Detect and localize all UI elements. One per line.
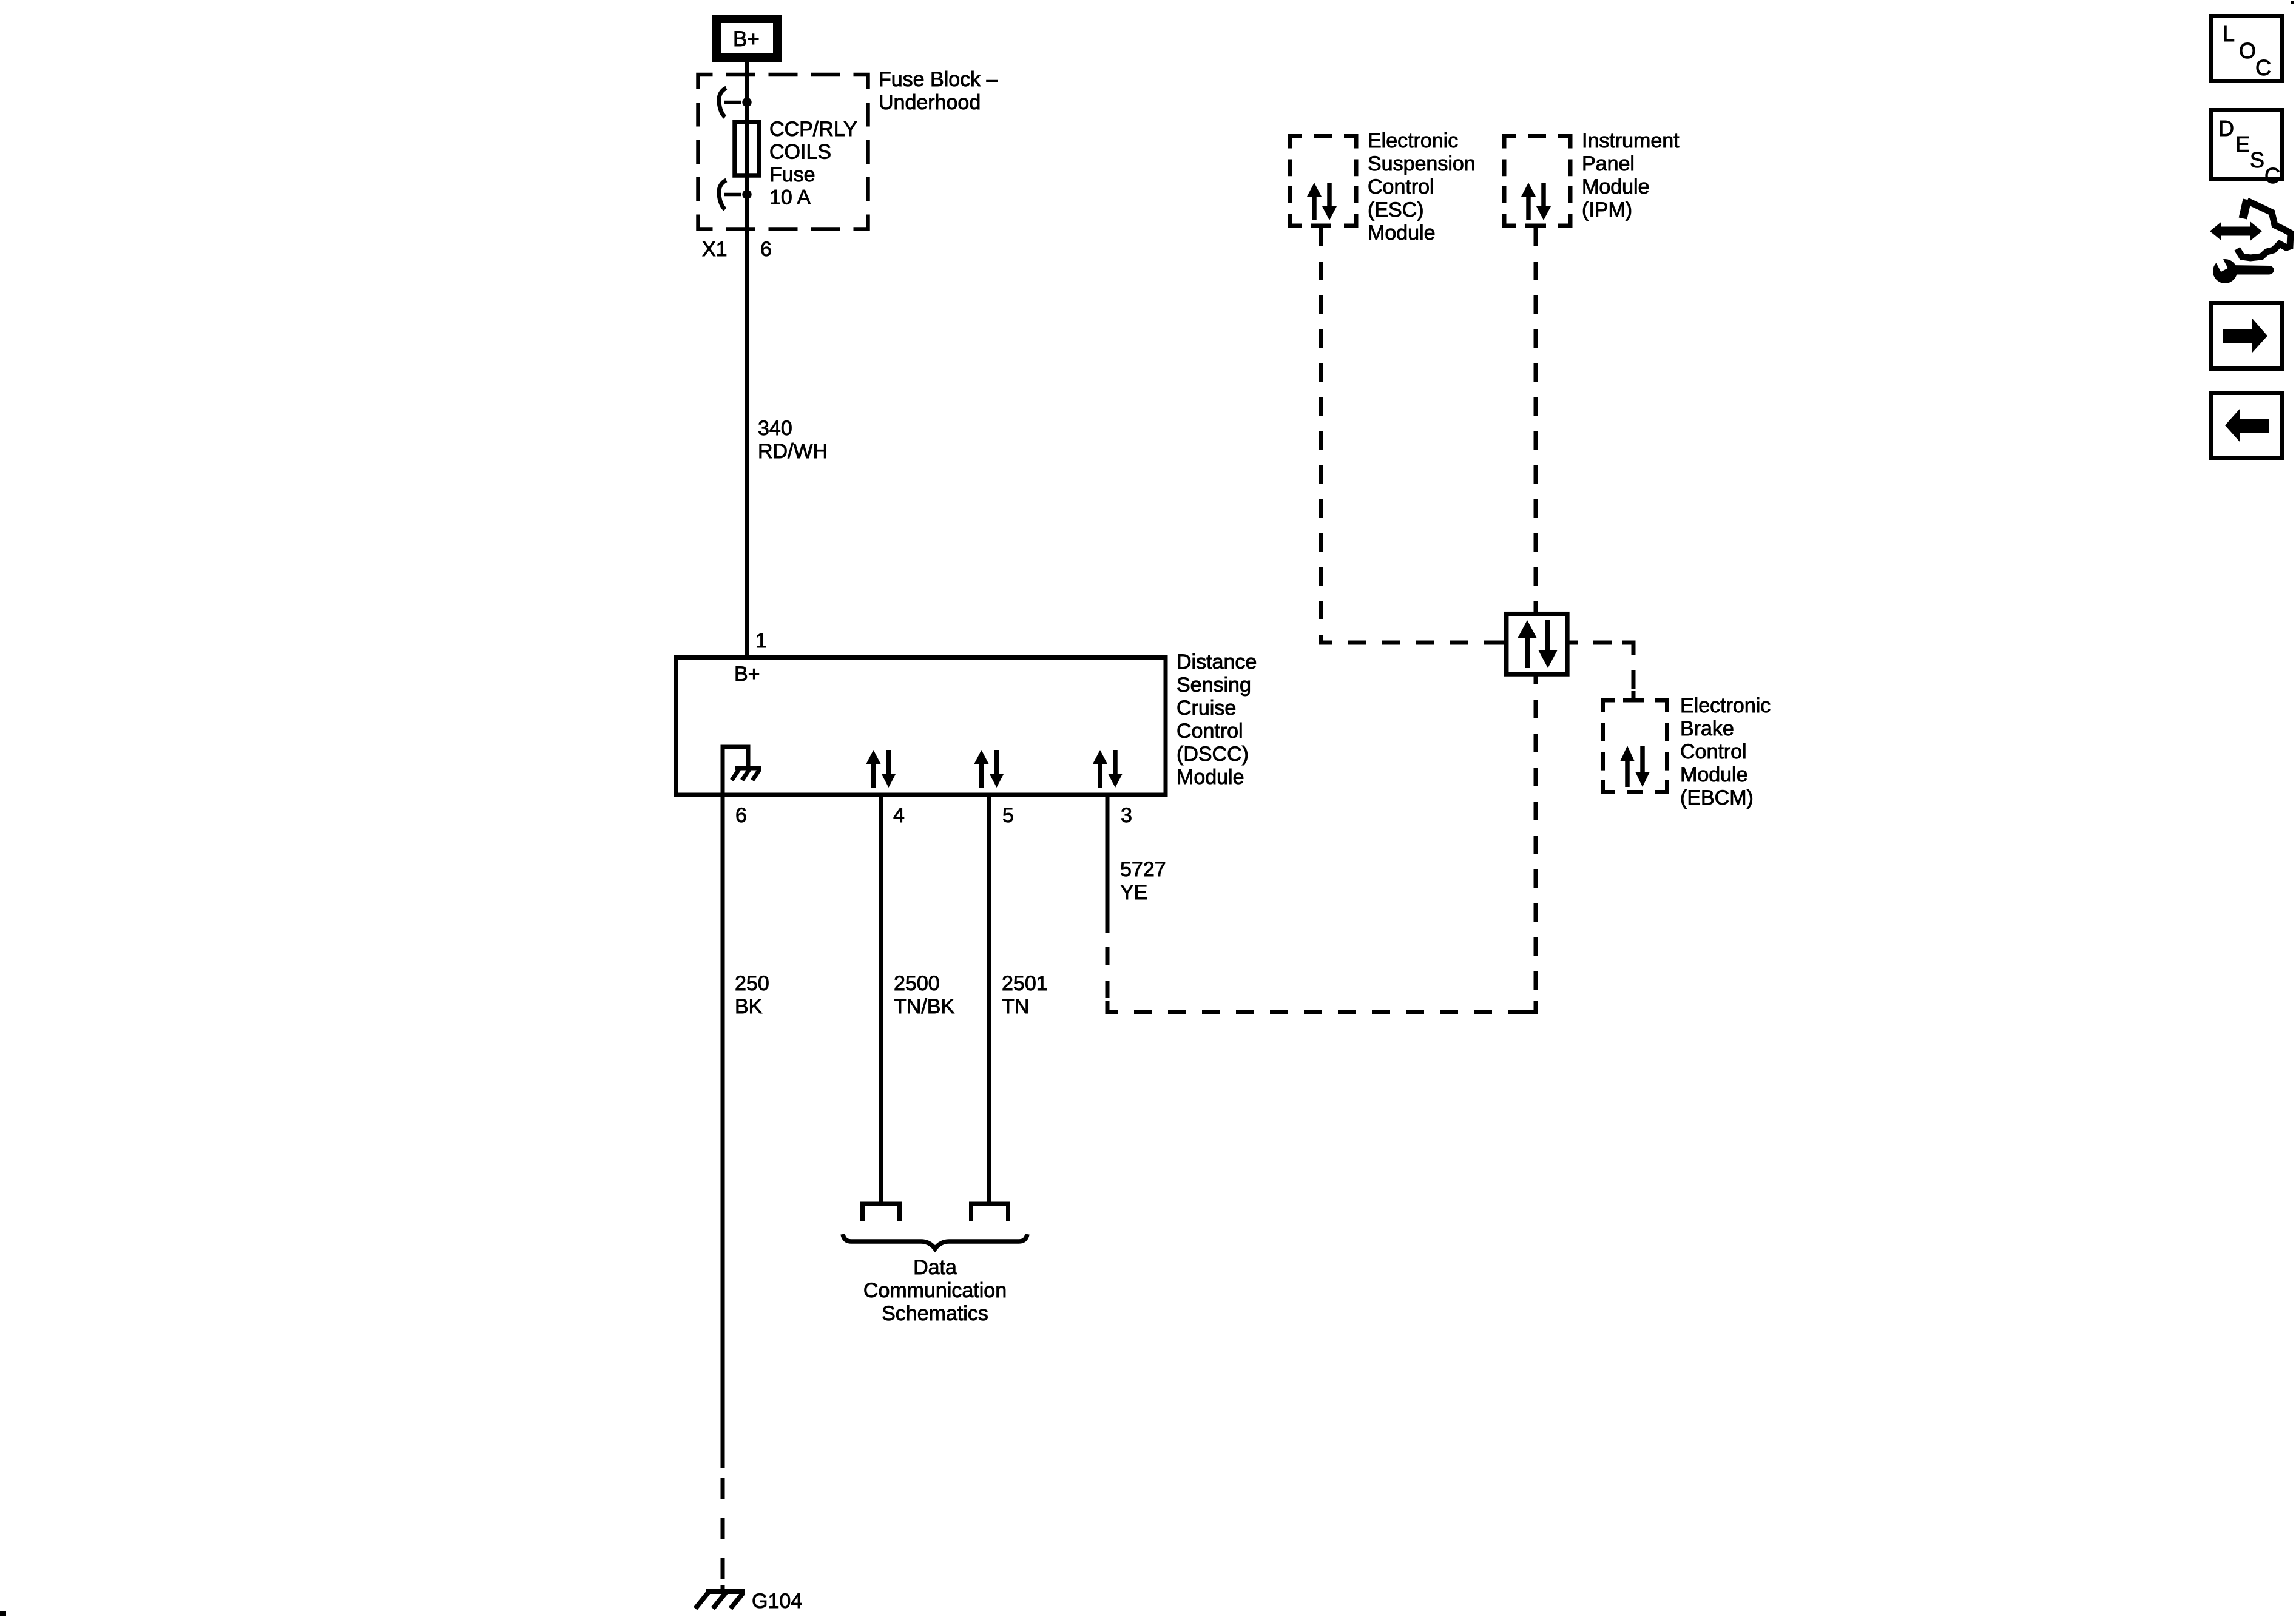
svg-text:Fuse: Fuse: [769, 163, 815, 186]
bidirectional data arrows in gateway junction: [1518, 620, 1558, 668]
svg-text:10 A: 10 A: [769, 186, 811, 209]
svg-text:S: S: [2250, 147, 2264, 172]
DSCC module box: [676, 658, 1166, 795]
bidirectional data arrows in IPM: [1521, 183, 1551, 220]
fuse CCP/RLY COILS 10 A: [735, 122, 759, 175]
bidirectional data arrows in DSCC above pin 4: [866, 750, 896, 788]
svg-text:C: C: [2264, 163, 2280, 188]
svg-text:(EBCM): (EBCM): [1680, 786, 1754, 809]
svg-text:G104: G104: [752, 1590, 802, 1613]
power symbol B+ (battery feed box): [717, 19, 777, 58]
bidirectional data arrows in DSCC above pin 3: [1093, 750, 1123, 788]
svg-text:6: 6: [735, 804, 747, 827]
svg-text:Distance: Distance: [1177, 650, 1257, 673]
connection tick stub at EBCM top: [1632, 691, 1636, 700]
corner piece of EBCM drop wire: [1622, 643, 1633, 653]
svg-text:2500: 2500: [894, 972, 940, 995]
svg-text:CCP/RLY: CCP/RLY: [769, 118, 857, 141]
svg-text:Control: Control: [1177, 720, 1243, 743]
wire label 5727 YE: [1120, 858, 1166, 904]
svg-text:3: 3: [1121, 804, 1132, 827]
off-page connector for 2500 wire: [863, 1204, 900, 1221]
svg-text:Suspension: Suspension: [1368, 152, 1476, 175]
icon wiring repair (double arrow, harness outline, wrench): [2210, 200, 2291, 283]
svg-text:Instrument: Instrument: [1582, 129, 1680, 152]
wire 340 RD/WH from B+ through fuse to DSCC pin 1: [745, 62, 749, 657]
svg-text:E: E: [2235, 132, 2250, 157]
svg-text:B+: B+: [733, 27, 760, 51]
icon back (left arrow) box: [2212, 393, 2283, 458]
wire label 250 BK: [735, 972, 769, 1018]
wire 250 BK dashed part to G104: [721, 1478, 725, 1579]
svg-text:TN/BK: TN/BK: [894, 995, 954, 1018]
wire 5727 YE from pin 3 (solid part): [1106, 797, 1110, 933]
svg-text:Electronic: Electronic: [1680, 694, 1771, 717]
svg-text:340: 340: [758, 417, 792, 440]
label CCP/RLY COILS Fuse 10 A: [769, 118, 857, 209]
connector clip at fuse input: [719, 88, 752, 117]
svg-text:Brake: Brake: [1680, 717, 1734, 740]
svg-text:2501: 2501: [1002, 972, 1048, 995]
dashed wire from IPM down to gateway junction: [1534, 228, 1538, 612]
svg-text:(DSCC): (DSCC): [1177, 743, 1249, 766]
svg-text:(ESC): (ESC): [1368, 198, 1424, 221]
icon next (right arrow) box: [2212, 303, 2283, 369]
svg-text:5: 5: [1002, 804, 1014, 827]
svg-text:Panel: Panel: [1582, 152, 1635, 175]
svg-text:O: O: [2239, 38, 2256, 63]
svg-text:Module: Module: [1368, 221, 1436, 245]
junction box stubs: [1497, 603, 1578, 684]
svg-text:Underhood: Underhood: [879, 91, 981, 114]
label Fuse Block - Underhood: [879, 68, 998, 114]
svg-text:Control: Control: [1680, 740, 1747, 763]
svg-text:Fuse Block –: Fuse Block –: [879, 68, 998, 91]
gateway junction box: [1507, 614, 1567, 674]
svg-text:(IPM): (IPM): [1582, 198, 1632, 221]
label Instrument Panel Module (IPM): [1582, 129, 1680, 221]
svg-text:Control: Control: [1368, 175, 1434, 198]
svg-text:1: 1: [755, 629, 767, 652]
EBCM module dashed box: [1603, 700, 1667, 792]
svg-text:D: D: [2218, 116, 2234, 141]
label Data Communication Schematics: [863, 1256, 1007, 1325]
bidirectional data arrows in ESC: [1307, 183, 1337, 220]
wire 2500 TN/BK from pin 4: [879, 797, 883, 1204]
IPM module dashed box: [1504, 137, 1570, 226]
svg-text:COILS: COILS: [769, 141, 831, 164]
label Electronic Brake Control Module (EBCM): [1680, 694, 1771, 809]
dashed serial data bus from 5727 wire to gateway junction: [1107, 700, 1536, 1012]
dashed wire from ESC to gateway junction: [1321, 228, 1504, 643]
bidirectional data arrows in EBCM: [1620, 746, 1650, 787]
svg-text:Module: Module: [1582, 175, 1650, 198]
wire 250 BK from pin 6 (solid part): [721, 797, 725, 1468]
svg-text:B+: B+: [734, 663, 760, 686]
svg-text:Sensing: Sensing: [1177, 673, 1251, 697]
icon LOC box: [2212, 16, 2283, 81]
svg-text:4: 4: [893, 804, 905, 827]
icon DESC box: [2212, 110, 2283, 189]
svg-text:Communication: Communication: [863, 1279, 1007, 1302]
ESC module dashed box: [1290, 137, 1356, 226]
svg-text:5727: 5727: [1120, 858, 1166, 881]
svg-text:250: 250: [735, 972, 769, 995]
brace grouping data wires: [843, 1234, 1027, 1249]
wire label 2500 TN/BK: [894, 972, 954, 1018]
svg-text:Cruise: Cruise: [1177, 697, 1236, 720]
fuse block underhood dashed box: [698, 75, 868, 229]
wire label 340 RD/WH: [758, 417, 828, 463]
connector clip at fuse output: [719, 180, 752, 209]
svg-text:C: C: [2255, 55, 2271, 80]
svg-text:Schematics: Schematics: [882, 1302, 988, 1325]
internal chassis ground symbol in DSCC: [723, 747, 761, 797]
wire 2501 TN from pin 5: [987, 797, 991, 1204]
ground G104 chassis symbol: [695, 1592, 745, 1609]
svg-text:X1: X1: [702, 238, 728, 261]
connector designator X1 and cavity 6: [702, 238, 772, 261]
svg-text:TN: TN: [1002, 995, 1029, 1018]
dashed wire from gateway junction to EBCM: [1593, 643, 1633, 691]
svg-text:YE: YE: [1120, 881, 1147, 904]
svg-text:L: L: [2223, 21, 2235, 46]
bidirectional data arrows in DSCC above pin 5: [974, 750, 1004, 788]
svg-text:RD/WH: RD/WH: [758, 440, 828, 463]
svg-text:Module: Module: [1680, 763, 1748, 786]
module label Distance Sensing Cruise Control (DSCC) Module: [1177, 650, 1257, 789]
off-page connector for 2501 wire: [971, 1204, 1008, 1221]
label Electronic Suspension Control (ESC) Module: [1368, 129, 1476, 245]
svg-text:BK: BK: [735, 995, 763, 1018]
svg-text:Electronic: Electronic: [1368, 129, 1458, 152]
svg-text:Module: Module: [1177, 766, 1244, 789]
svg-text:Data: Data: [913, 1256, 957, 1279]
page corner marks: [0, 1611, 6, 1616]
svg-text:6: 6: [760, 238, 772, 261]
wire label 2501 TN: [1002, 972, 1048, 1018]
